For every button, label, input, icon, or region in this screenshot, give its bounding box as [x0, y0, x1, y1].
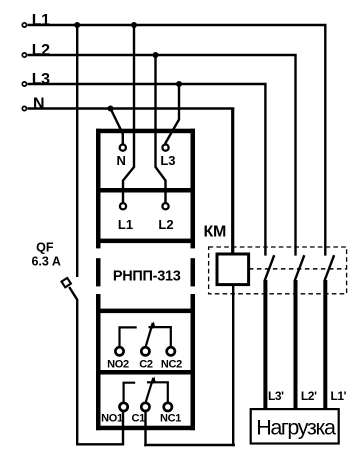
svg-text:N: N — [33, 96, 44, 113]
svg-text:NO2: NO2 — [107, 358, 129, 370]
svg-text:C1: C1 — [131, 413, 145, 425]
svg-text:L2: L2 — [158, 217, 173, 232]
svg-text:РНПП-313: РНПП-313 — [113, 269, 181, 285]
svg-text:L1: L1 — [118, 217, 133, 232]
svg-text:L2: L2 — [32, 42, 50, 59]
svg-text:NO1: NO1 — [101, 413, 123, 425]
svg-text:L1: L1 — [32, 12, 50, 29]
svg-text:6.3 A: 6.3 A — [31, 255, 60, 269]
svg-text:Нагрузка: Нагрузка — [256, 416, 336, 440]
svg-text:N: N — [117, 153, 126, 168]
svg-text:L1': L1' — [330, 389, 346, 403]
svg-text:NC2: NC2 — [161, 358, 182, 370]
svg-text:C2: C2 — [139, 358, 153, 370]
svg-text:L2': L2' — [301, 389, 317, 403]
svg-text:L3': L3' — [268, 389, 284, 403]
svg-text:QF: QF — [36, 240, 54, 254]
svg-text:NC1: NC1 — [160, 413, 181, 425]
svg-text:L3: L3 — [160, 153, 175, 168]
svg-text:L3: L3 — [32, 71, 50, 88]
svg-text:КМ: КМ — [204, 223, 227, 240]
